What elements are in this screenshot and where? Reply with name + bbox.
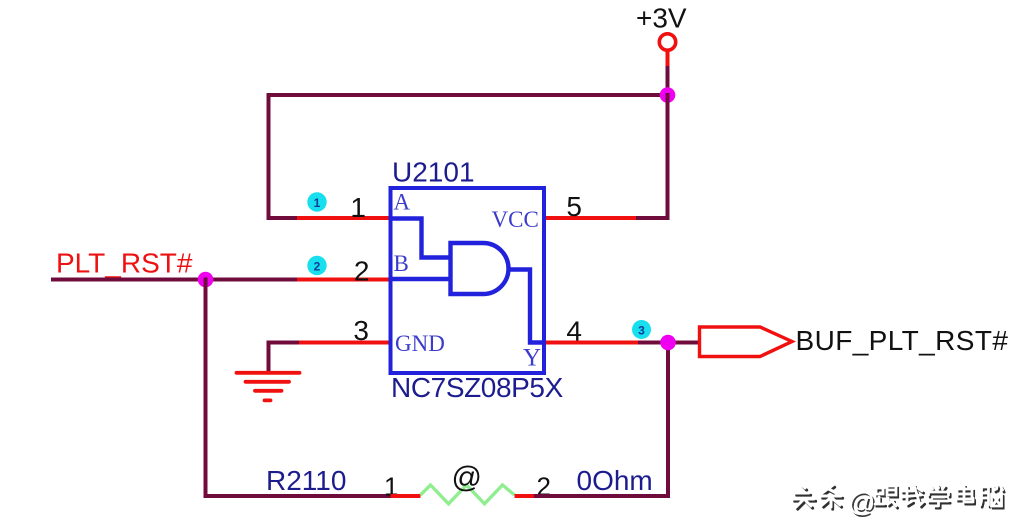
AND gate internal input A routing [391, 219, 451, 258]
svg-text:@: @ [452, 461, 482, 494]
svg-text:2: 2 [314, 260, 321, 274]
svg-text:BUF_PLT_RST#: BUF_PLT_RST# [796, 325, 1009, 356]
wire bottom horizontal left of resistor [206, 494, 391, 498]
wire bottom horizontal right of resistor [536, 494, 668, 498]
AND gate body [451, 243, 509, 294]
ground symbol [237, 373, 300, 401]
sequence marker 1 [307, 192, 326, 211]
svg-text:4: 4 [566, 316, 582, 347]
wire pin1 red segment [297, 216, 390, 220]
watermark glyph 电 [957, 485, 975, 504]
AND gate internal input B routing [391, 277, 451, 281]
svg-text:3: 3 [353, 315, 369, 346]
svg-text:2: 2 [354, 256, 370, 287]
watermark 头条 @跟我学电脑 (drawn strokes, white with dark shadow) [793, 485, 1004, 519]
watermark glyph 条 [821, 485, 843, 509]
junction on PLT_RST# net [198, 272, 214, 288]
svg-text:0Ohm: 0Ohm [577, 465, 653, 496]
svg-text:1: 1 [350, 192, 366, 223]
svg-text:U2101: U2101 [392, 157, 475, 188]
wire pin3 red segment [297, 341, 390, 345]
wire left loop vertical [267, 95, 271, 218]
wire pin4 red segment [544, 341, 640, 345]
wire VCC vertical [666, 95, 670, 218]
watermark glyph 脑 [981, 485, 1005, 508]
watermark glyph @ [848, 487, 877, 519]
watermark glyph 头 [793, 485, 816, 509]
svg-text:3: 3 [638, 324, 645, 338]
resistor pin1 red stub [391, 494, 421, 498]
svg-text:VCC: VCC [492, 207, 539, 232]
wire pin2 red segment [297, 278, 390, 282]
watermark glyph 我 [902, 485, 925, 507]
svg-text:5: 5 [566, 191, 582, 222]
wire right vertical from bottom rail to output net [666, 343, 670, 497]
junction at +3V rail [660, 87, 676, 103]
svg-text:B: B [394, 251, 409, 276]
sequence marker 2 [307, 256, 326, 275]
svg-text:1: 1 [314, 196, 321, 210]
wire vertical from PLT junction to bottom rail [204, 280, 208, 497]
svg-text:GND: GND [395, 331, 445, 356]
svg-text:+3V: +3V [636, 3, 687, 34]
power symbol +3V [636, 3, 687, 51]
svg-text:NC7SZ08P5X: NC7SZ08P5X [391, 372, 564, 403]
wire pin5 dark segment [638, 216, 668, 220]
svg-text:PLT_RST#: PLT_RST# [56, 247, 193, 278]
AND gate output routing to Y [507, 270, 544, 343]
wire red stub below +3V circle [666, 51, 670, 67]
watermark glyph 跟 [875, 486, 898, 508]
wire PLT_RST# horizontal dark [53, 278, 297, 282]
resistor pin2 red stub [515, 494, 537, 498]
watermark glyph 学 [929, 485, 951, 508]
wire pin5 red segment [544, 216, 638, 220]
wire top horizontal [269, 93, 668, 97]
wire ground vertical [267, 343, 271, 373]
off-page connector BUF_PLT_RST# [700, 327, 793, 357]
svg-text:A: A [394, 190, 411, 215]
svg-text:Y: Y [523, 345, 541, 372]
wire pin3 dark segment [269, 341, 298, 345]
wire dark vertical from +3V stub down to top junction [666, 66, 670, 95]
wire pin4 dark segment to connector [640, 341, 698, 345]
svg-text:@: @ [848, 487, 875, 517]
wire pin1 dark segment [269, 216, 298, 220]
svg-text:R2110: R2110 [266, 465, 346, 496]
resistor zigzag body [421, 485, 515, 504]
sequence marker 3 [632, 320, 651, 339]
junction on output net [660, 335, 676, 351]
IC U2101 body [391, 188, 545, 373]
